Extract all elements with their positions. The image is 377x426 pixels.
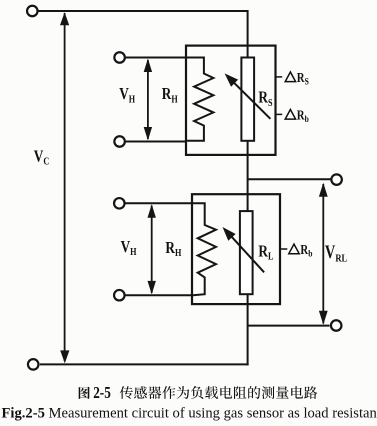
svg-text:RS: RS — [297, 70, 309, 87]
label delta RS — [285, 72, 295, 82]
tick delta-Rb upper — [275, 113, 282, 115]
sensor box upper (RS) — [186, 46, 276, 155]
wire upper heater bottom — [126, 141, 187, 143]
label RL — [258, 242, 273, 263]
wire bottom rail — [40, 363, 249, 365]
wire to bottom-right terminal — [248, 325, 330, 327]
wire lower heater bottom — [125, 294, 193, 296]
svg-text:RH: RH — [162, 85, 179, 106]
label VH lower — [121, 237, 138, 258]
wire main vertical lower segment — [247, 293, 249, 365]
tick delta-RS — [275, 76, 282, 78]
svg-text:Rb: Rb — [297, 107, 309, 124]
svg-text:RS: RS — [258, 88, 272, 109]
svg-text:RL: RL — [258, 242, 273, 263]
svg-text:Rb: Rb — [300, 242, 312, 259]
label RH upper — [162, 85, 179, 106]
label delta Rb upper — [285, 110, 295, 120]
resistor RS body — [241, 58, 254, 141]
wire upper heater top — [126, 57, 187, 59]
terminal T6 output top-right — [331, 174, 342, 185]
wire to top-right terminal — [248, 178, 331, 180]
VRL measuring arrow — [322, 184, 324, 324]
svg-text:VH: VH — [121, 237, 138, 258]
wire main vertical upper segment — [247, 10, 249, 59]
VH lower measuring arrow — [151, 206, 153, 294]
tick delta-Rb lower — [281, 248, 287, 250]
svg-text:VRL: VRL — [325, 241, 348, 264]
VC arrowhead up — [60, 12, 69, 25]
wire top rail — [38, 10, 247, 12]
terminal T5 heater lower - — [114, 290, 125, 301]
terminal T4 heater lower + — [114, 198, 125, 209]
terminal T8 bottom-left — [28, 359, 39, 370]
terminal T1 top-left — [27, 6, 38, 17]
svg-text:VC: VC — [34, 147, 50, 168]
label RS — [258, 88, 272, 109]
resistor RH lower zigzag — [193, 203, 216, 295]
label VC — [34, 147, 50, 168]
RL variable arrow — [227, 232, 264, 273]
VC measuring arrow line — [64, 13, 66, 361]
VH upper measuring arrow — [147, 60, 149, 139]
svg-text:VH: VH — [119, 85, 136, 106]
sensor box lower (RL) — [192, 194, 280, 304]
label VRL — [325, 241, 348, 264]
RS variable arrow — [229, 78, 271, 119]
terminal T3 heater upper - — [114, 136, 125, 147]
terminal T7 output bottom-right — [331, 320, 342, 331]
VC arrowhead down — [60, 350, 69, 363]
svg-text:2-5: 2-5 — [93, 385, 111, 403]
terminal T2 heater upper + — [114, 52, 125, 63]
label RH lower — [165, 238, 182, 259]
svg-text:Fig.2-5 Measurement circuit of: Fig.2-5 Measurement circuit of using gas… — [2, 406, 377, 422]
label delta Rb lower — [289, 244, 299, 254]
resistor RH upper zigzag — [187, 58, 213, 141]
wire lower heater top — [125, 202, 193, 204]
caption chinese: 图2-5 传感器作为负载电阻的测量电路 — [79, 385, 318, 403]
label VH upper — [119, 85, 136, 106]
wire main vertical middle segment — [247, 140, 249, 212]
svg-text:RH: RH — [165, 238, 182, 259]
resistor RL body — [240, 211, 253, 294]
